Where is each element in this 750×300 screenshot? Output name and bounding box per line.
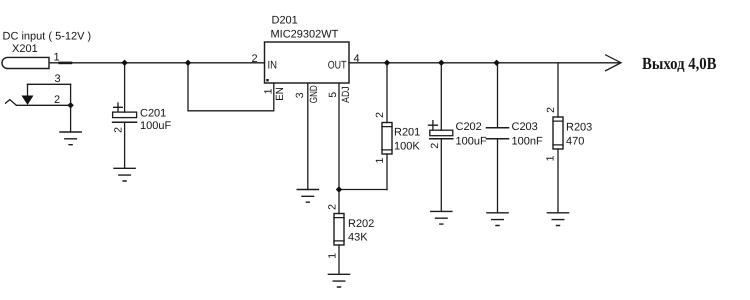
svg-text:100nF: 100nF (512, 136, 543, 148)
svg-text:1: 1 (262, 88, 274, 94)
svg-text:43K: 43K (348, 232, 368, 244)
svg-text:3: 3 (55, 73, 61, 85)
svg-text:2: 2 (252, 53, 258, 65)
svg-text:R201: R201 (394, 126, 420, 138)
svg-text:DC input ( 5-12V ): DC input ( 5-12V ) (3, 30, 92, 42)
svg-text:3: 3 (294, 92, 306, 98)
svg-text:C203: C203 (512, 121, 538, 133)
svg-text:IN: IN (268, 60, 278, 72)
svg-text:1: 1 (327, 253, 339, 259)
svg-text:100uF: 100uF (140, 120, 171, 132)
svg-text:D201: D201 (272, 15, 298, 27)
svg-text:GND: GND (308, 85, 320, 103)
svg-text:2: 2 (54, 94, 60, 106)
svg-text:100uF: 100uF (456, 136, 487, 148)
svg-text:OUT: OUT (328, 60, 347, 72)
svg-text:X201: X201 (12, 43, 38, 55)
svg-text:R202: R202 (348, 218, 374, 230)
svg-text:C202: C202 (456, 121, 482, 133)
svg-text:ADJ: ADJ (340, 86, 352, 103)
svg-text:Выход 4,0В: Выход 4,0В (642, 54, 717, 73)
svg-text:R203: R203 (566, 121, 592, 133)
svg-text:1: 1 (374, 158, 386, 164)
svg-text:470: 470 (566, 136, 584, 148)
svg-text:C201: C201 (140, 108, 166, 120)
svg-text:4: 4 (354, 53, 360, 65)
svg-text:2: 2 (545, 107, 557, 113)
svg-text:2: 2 (429, 143, 441, 149)
svg-text:2: 2 (112, 127, 124, 133)
svg-text:1: 1 (545, 155, 557, 161)
svg-text:1: 1 (54, 52, 60, 64)
svg-text:5: 5 (327, 92, 339, 98)
svg-text:100K: 100K (394, 141, 420, 153)
svg-text:MIC29302WT: MIC29302WT (271, 29, 339, 41)
svg-text:2: 2 (327, 204, 339, 210)
svg-text:2: 2 (374, 112, 386, 118)
svg-text:EN: EN (274, 87, 286, 101)
